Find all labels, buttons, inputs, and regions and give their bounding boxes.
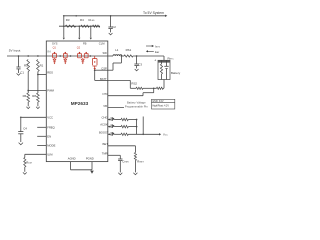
- svg-text:CSP: CSP: [101, 67, 107, 71]
- svg-text:PGND: PGND: [86, 157, 94, 161]
- pin BATT label: [100, 77, 107, 81]
- svg-text:C3: C3: [138, 62, 142, 66]
- arrow IBAT: [146, 50, 160, 54]
- junction NTC tap: [153, 87, 155, 89]
- resistor R7 battery: [157, 87, 164, 89]
- pin ILIM label: [47, 152, 53, 156]
- junction rail-C2: [110, 15, 112, 17]
- capacitor C1: [16, 56, 24, 74]
- capacitor C2: [108, 16, 116, 33]
- wire BOOST rail: [128, 133, 159, 135]
- svg-text:SW: SW: [103, 51, 108, 55]
- resistor R CHG: [121, 118, 128, 120]
- svg-text:VB: VB: [103, 104, 107, 108]
- svg-text:MP2633: MP2633: [71, 101, 89, 106]
- ground C4: [19, 143, 23, 145]
- svg-text:FB: FB: [83, 42, 87, 46]
- wire R8 bottom: [37, 102, 39, 106]
- label battery voltage programmable: [125, 101, 148, 109]
- wire L1-RS1: [122, 55, 124, 57]
- wire Q5 to CSP: [94, 69, 108, 80]
- wire BOOST-R: [114, 133, 121, 135]
- wire SW out: [108, 55, 113, 57]
- pin AGND label: [68, 157, 76, 161]
- svg-text:R3: R3: [66, 18, 70, 22]
- wire divider mid R1: [37, 72, 39, 94]
- wire AGND drop: [70, 162, 72, 170]
- pin PGND label: [86, 157, 94, 161]
- junction CHG bus: [136, 119, 138, 121]
- wire RS2-junction: [143, 87, 157, 89]
- pin SW label: [103, 51, 108, 55]
- wire 5V input: [7, 55, 46, 57]
- battery cell: [164, 60, 168, 79]
- wire RS1 to battery: [133, 55, 164, 57]
- capacitor CTMR: [118, 159, 129, 172]
- IC U1 MP2633 outline: [46, 41, 108, 162]
- svg-text:Battery Voltage: Battery Voltage: [127, 101, 146, 105]
- wire VCC: [21, 116, 47, 118]
- svg-text:R5: R5: [24, 64, 28, 68]
- wire BOOST: [108, 133, 110, 135]
- svg-text:5V Input: 5V Input: [9, 49, 21, 53]
- pin REG label: [47, 71, 53, 75]
- label 5V Input: [9, 49, 21, 53]
- wire arrow to SYS pin: [63, 26, 65, 39]
- transistor CHG: [110, 117, 115, 121]
- svg-text:BOOST: BOOST: [99, 130, 109, 134]
- junction ACOK: [108, 126, 110, 128]
- wire VB: [108, 107, 124, 109]
- wire bus vertical: [136, 120, 138, 135]
- wire to battery minus: [162, 80, 165, 89]
- svg-text:Q1: Q1: [53, 46, 57, 49]
- ground R8: [36, 107, 40, 109]
- junction rail drop: [63, 15, 77, 17]
- wire 5V system rail: [64, 15, 168, 17]
- options text row2: [152, 104, 169, 107]
- wire CHG-R: [114, 119, 121, 121]
- svg-text:REG: REG: [47, 71, 53, 75]
- wire RS2 row: [130, 87, 136, 89]
- junction bus-R4: [78, 25, 80, 27]
- svg-text:C1: C1: [20, 70, 24, 74]
- svg-text:TMR: TMR: [102, 151, 108, 155]
- label Battery: [171, 71, 181, 75]
- resistor R ACOK: [121, 125, 128, 127]
- label To 5V System: [143, 11, 164, 15]
- ground CTMR: [118, 173, 122, 175]
- resistor R1: [37, 60, 44, 72]
- pin FB top label: [83, 42, 87, 46]
- transistor ACOK: [110, 124, 115, 128]
- junction input-C1: [18, 55, 20, 57]
- junction BOOST: [108, 133, 110, 135]
- resistor RISET: [134, 153, 144, 173]
- svg-text:Programmable Pin: Programmable Pin: [125, 104, 148, 108]
- svg-text:Battery: Battery: [171, 71, 181, 75]
- wire gnd join: [71, 169, 93, 171]
- options box: [152, 99, 175, 109]
- IC U1 label MP2633: [71, 101, 89, 106]
- wire arrow to FB pin: [78, 26, 80, 39]
- svg-text:R1: R1: [40, 64, 44, 68]
- wire internal rail: [46, 55, 108, 57]
- arrow VCC: [159, 133, 168, 137]
- wire CHG to bus: [128, 119, 136, 121]
- svg-text:Q2: Q2: [77, 46, 81, 49]
- svg-text:R4: R4: [80, 18, 84, 22]
- svg-text:R8: R8: [32, 94, 36, 98]
- ground C1: [17, 73, 21, 75]
- junction Q2-Q3: [70, 55, 72, 57]
- pin ISET label: [102, 142, 108, 146]
- svg-text:BATT: BATT: [100, 77, 107, 81]
- svg-text:PWM: PWM: [47, 89, 54, 93]
- svg-text:ACOK: ACOK: [100, 123, 108, 127]
- pin IN label: [48, 50, 51, 54]
- junction BOOST-VB link: [142, 133, 144, 135]
- transistor Q1: [52, 46, 56, 64]
- wire ISET: [108, 146, 136, 153]
- junction C3 tap: [136, 55, 138, 57]
- pin TMR label: [102, 151, 108, 155]
- junction input-R1div: [37, 55, 39, 57]
- pin EN label: [47, 134, 51, 138]
- junction bus-RLED: [90, 25, 92, 27]
- resistor RLIM: [24, 154, 32, 172]
- capacitor C3: [134, 56, 142, 68]
- capacitor C4: [18, 116, 27, 142]
- resistor R6: [23, 93, 30, 102]
- wire arrow to CLM pin: [90, 26, 92, 39]
- svg-text:High/Float: 4.2V: High/Float: 4.2V: [152, 104, 169, 107]
- junction CHG: [108, 119, 110, 121]
- label RS2: [131, 81, 137, 85]
- ground C2: [109, 33, 113, 35]
- pin NTC label: [103, 92, 109, 96]
- svg-text:SYS: SYS: [52, 42, 58, 46]
- svg-text:AGND: AGND: [68, 157, 76, 161]
- pin SYS top label: [52, 42, 58, 46]
- resistor R4: [80, 18, 89, 28]
- wire R1 tap to pin: [37, 74, 46, 76]
- transistor Q3: [77, 46, 82, 57]
- wire R6 bottom: [27, 102, 29, 106]
- svg-text:To 5V System: To 5V System: [143, 11, 164, 15]
- pin CHG label: [102, 116, 108, 120]
- ground C3: [135, 69, 139, 71]
- wire TMR: [108, 155, 121, 159]
- wire NTC: [108, 88, 154, 95]
- svg-text:VCC: VCC: [47, 115, 53, 119]
- battery plus: [154, 59, 156, 63]
- wire link to options: [142, 117, 144, 135]
- junction Q1-Q2: [59, 55, 61, 57]
- arrow ISYS: [146, 45, 160, 49]
- junction ACOK bus: [136, 126, 138, 128]
- resistor RLED: [89, 18, 100, 28]
- transistor Q2: [63, 52, 67, 64]
- svg-text:EN: EN: [47, 134, 51, 138]
- transistor BOOST: [110, 132, 115, 136]
- svg-text:ILIM: ILIM: [47, 152, 53, 156]
- wire EN: [37, 135, 46, 137]
- battery pack box: [158, 60, 170, 79]
- resistor R8: [32, 93, 39, 102]
- ground RISET: [133, 173, 137, 175]
- resistor RS1: [124, 48, 133, 57]
- svg-text:CHG: CHG: [102, 116, 108, 120]
- svg-text:L1: L1: [115, 48, 119, 52]
- wire ACOK-R: [114, 126, 121, 128]
- pin VCC label: [47, 115, 53, 119]
- svg-text:R6: R6: [23, 94, 27, 98]
- inductor L1: [113, 48, 122, 56]
- ground RLIM: [23, 172, 27, 174]
- svg-text:RS1: RS1: [126, 48, 132, 52]
- ground R6: [26, 107, 30, 109]
- svg-text:NTC: NTC: [103, 92, 109, 96]
- wire divider mid R5: [27, 72, 29, 94]
- svg-text:FREQ: FREQ: [47, 125, 54, 129]
- ground AGND PGND: [90, 171, 94, 174]
- svg-text:+: +: [154, 59, 156, 63]
- thermistor RNTC: [160, 60, 162, 79]
- wire PGND drop: [91, 162, 93, 170]
- pin CSP label: [101, 67, 107, 71]
- wire R5 tap to pin: [27, 90, 46, 92]
- wire CSP sense: [108, 55, 122, 70]
- svg-text:C2: C2: [112, 25, 116, 29]
- svg-text:GND: 3.6V: GND: 3.6V: [152, 101, 164, 103]
- resistor R3: [65, 18, 76, 28]
- svg-text:CLM: CLM: [99, 42, 105, 46]
- svg-text:ISET: ISET: [102, 142, 108, 146]
- resistor RS2: [136, 87, 143, 89]
- pin CLM top label: [99, 42, 105, 46]
- pin VB label: [103, 104, 107, 108]
- svg-text:MODE: MODE: [47, 144, 55, 148]
- junction input-R3div: [27, 55, 29, 57]
- wire ACOK: [108, 126, 110, 128]
- wire ILIM: [25, 153, 47, 155]
- junction Q4-SW: [89, 55, 91, 57]
- wire pullup bus: [59, 25, 100, 27]
- svg-text:IN: IN: [48, 50, 51, 54]
- options text row1: [152, 101, 164, 103]
- resistor R5: [24, 60, 30, 72]
- wire BATT pin: [108, 80, 131, 88]
- transistor Q5: [92, 56, 97, 70]
- pin ACOK label: [100, 123, 108, 127]
- wire FREQ: [37, 126, 46, 128]
- pin BOOST label: [99, 130, 109, 134]
- svg-text:RS2: RS2: [131, 81, 137, 85]
- label RNTC: [168, 56, 175, 60]
- transistor Q4: [81, 52, 88, 64]
- wire ACOK to bus: [128, 126, 136, 128]
- wire CHG: [108, 119, 110, 121]
- pin MODE label: [47, 144, 55, 148]
- wire battery drop: [163, 56, 165, 60]
- resistor R BOOST: [121, 133, 128, 135]
- svg-text:C4: C4: [23, 127, 27, 131]
- pin PWM label: [47, 89, 54, 93]
- wire MODE: [37, 144, 46, 146]
- pin FREQ label: [47, 125, 54, 129]
- wire SYS rail drop to bus: [63, 16, 65, 26]
- junction bus-R3: [63, 25, 65, 27]
